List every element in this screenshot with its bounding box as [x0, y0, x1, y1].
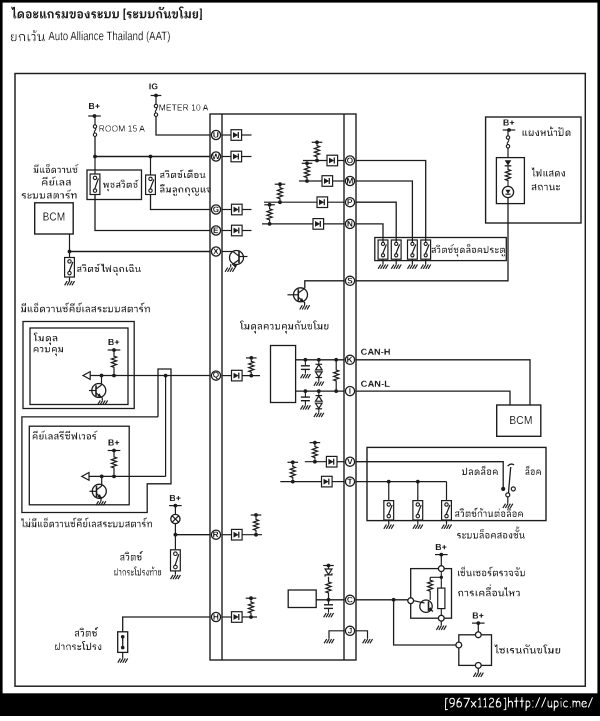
resistor to N line	[267, 207, 272, 226]
instrument panel box	[486, 117, 581, 223]
ground lock rod switch 1	[384, 520, 394, 529]
terminal V	[345, 457, 354, 466]
fuse ROOM 15 A	[93, 125, 96, 137]
transistor keyless receiver	[90, 476, 107, 505]
label BCM 2	[510, 416, 531, 424]
terminal R	[211, 530, 220, 539]
resistor Q	[249, 360, 254, 378]
terminal I	[345, 387, 354, 396]
diode N	[262, 219, 344, 230]
trunk lamp	[171, 514, 180, 523]
label push switch	[103, 180, 139, 192]
wire B+ to panel fuse	[507, 130, 509, 136]
keyless receiver outer box (with chimney)	[22, 369, 171, 513]
capacitor K	[301, 360, 311, 379]
pullup stub P	[275, 182, 286, 186]
resistor to O line	[314, 144, 319, 162]
label anti-theft control module	[240, 321, 328, 334]
pullup stub R	[251, 513, 262, 517]
sensor transistor	[414, 600, 435, 613]
wire drop sw2	[417, 482, 419, 501]
sensor internal node	[440, 572, 443, 580]
resistor K-I	[334, 360, 339, 391]
label instrument panel	[523, 127, 571, 137]
B+ supply (panel)	[503, 120, 516, 132]
sensor left terminal	[408, 598, 414, 604]
hood switch	[118, 632, 128, 653]
node lock rod sw2	[416, 480, 420, 484]
wire N to door switch 1	[356, 224, 383, 238]
wire J right ground	[356, 631, 373, 644]
terminal N	[345, 219, 354, 228]
double lock system box	[367, 447, 546, 520]
resistor C	[326, 577, 331, 602]
terminal E	[211, 226, 220, 235]
module left rail inner line	[221, 114, 223, 660]
wire BCM to X line	[69, 234, 71, 252]
terminal T	[345, 477, 354, 486]
label double lock system	[457, 527, 525, 539]
wire B+ to fuse	[94, 116, 96, 125]
siren left terminal	[456, 642, 462, 648]
wire Q branch riser	[165, 376, 167, 477]
B+ supply (room fuse)	[88, 103, 101, 118]
resistor H	[248, 600, 253, 619]
diode W	[222, 151, 252, 162]
pullup stub Q	[246, 356, 257, 360]
wire hood switch to H	[123, 617, 210, 632]
wire P to door switch 2	[356, 202, 396, 237]
resistor T	[290, 464, 295, 483]
title line 2	[11, 30, 170, 42]
label METER 10 A	[160, 105, 209, 111]
label CAN-H	[361, 349, 390, 355]
ground hazard switch	[65, 277, 75, 285]
wire B+ to sensor	[440, 555, 442, 566]
terminal C	[345, 595, 354, 604]
wire C internal	[316, 599, 344, 601]
label with advanced keyless	[21, 303, 150, 313]
wire W horizontal	[95, 156, 210, 158]
motion sensor box	[411, 569, 452, 619]
label lock rod switch	[455, 508, 523, 518]
pullup stub C	[323, 564, 334, 568]
keyless receiver inner box	[29, 426, 129, 505]
wire METER fuse to U	[156, 116, 210, 135]
diode O	[303, 155, 344, 166]
push switch box	[87, 170, 142, 200]
ground door lock switch 4	[421, 259, 431, 269]
label CAN-L	[361, 381, 390, 387]
push switch	[90, 174, 100, 195]
wire J left ground	[324, 631, 344, 644]
anti-theft module outline	[210, 114, 356, 660]
BCM box (keyless)	[35, 203, 73, 234]
wire C branch to siren	[394, 600, 456, 645]
label advanced keyless 2	[42, 177, 70, 186]
pullup stub M	[302, 161, 313, 165]
door lock switch pack box	[375, 238, 507, 261]
door lock switch 3	[408, 238, 418, 260]
capacitor I	[301, 391, 311, 410]
bottom black bar	[0, 693, 600, 716]
sensor bottom terminal	[438, 615, 444, 621]
lock rod switch 1	[384, 501, 394, 520]
key reminder switch	[146, 175, 156, 195]
transistor S	[288, 281, 345, 310]
node Q branch	[164, 374, 168, 378]
ground door lock switch 2	[391, 259, 401, 269]
door lock switch 2	[391, 238, 401, 260]
signal arrow (control module)	[83, 372, 90, 380]
label control module 1	[34, 333, 58, 346]
zener C	[325, 566, 332, 577]
label control module 2	[34, 347, 63, 356]
control module inner box	[30, 328, 128, 405]
wire I internal	[296, 390, 344, 392]
wire R horizontal	[175, 534, 210, 536]
wire CAN-L to BCM	[356, 391, 510, 405]
pullup stub O	[312, 140, 323, 144]
node K res	[334, 358, 338, 362]
wire K internal	[296, 359, 344, 361]
label key reminder 2	[160, 184, 211, 196]
terminal U	[211, 130, 220, 139]
terminal K	[345, 355, 354, 364]
wire CAN-H to BCM	[356, 360, 530, 405]
label unlock	[462, 466, 498, 475]
wire to key-reminder switch	[150, 157, 152, 176]
LED diode (panel)	[505, 160, 512, 168]
wire fuse to W-node	[94, 136, 96, 156]
label ROOM 15 A	[100, 126, 145, 132]
wire push switch to E	[95, 195, 210, 231]
wire to push switch	[94, 157, 96, 175]
label door lock switch pack	[432, 244, 505, 257]
terminal X	[211, 247, 220, 256]
siren box	[459, 635, 492, 666]
wire fuse to indicator box	[507, 148, 509, 158]
B+ supply (siren)	[472, 613, 485, 625]
label status lamp 1	[532, 168, 565, 177]
lock lever contact unlock	[501, 487, 505, 491]
diode M	[299, 176, 344, 187]
node receiver transistor	[100, 475, 104, 479]
wire to trunk switch	[174, 535, 176, 550]
siren bottom terminal	[475, 663, 481, 669]
wire receiver to riser	[89, 475, 166, 477]
lock lever contact lock	[511, 487, 515, 491]
door lock switch 4	[421, 238, 431, 260]
label trunk switch 1	[120, 551, 143, 561]
sensor top terminal	[438, 566, 444, 572]
status indicator lamp	[502, 182, 513, 198]
pullup stub V	[310, 441, 321, 445]
ground lock rod switch 3	[442, 520, 452, 529]
label siren	[494, 645, 560, 654]
lock lever common contact	[506, 493, 510, 497]
wire B+ to trunk lamp	[174, 506, 176, 515]
label without advanced keyless	[21, 518, 152, 528]
door lock switch 1	[378, 238, 388, 260]
B+ supply (motion sensor)	[435, 544, 448, 556]
title line 1	[11, 7, 202, 21]
diode Q	[222, 370, 260, 381]
terminal J	[345, 626, 354, 635]
resistor keyless receiver	[111, 451, 116, 475]
BCM box 2	[497, 405, 541, 436]
label hood switch 2	[55, 641, 101, 650]
label keyless receiver	[33, 431, 98, 440]
control module outer box	[23, 322, 134, 409]
diode E	[222, 225, 252, 236]
node Q transistor	[100, 374, 104, 378]
watermark url text	[445, 697, 593, 711]
CAN transceiver box	[271, 346, 296, 403]
terminal G	[211, 205, 220, 214]
transistor control module	[89, 376, 108, 405]
wire lamp to R line	[174, 524, 176, 535]
wire to hazard switch	[69, 252, 71, 258]
node lock rod sw1	[387, 480, 391, 484]
pullup stub N	[264, 203, 275, 207]
wire O to door switch 4	[356, 161, 426, 238]
node C branch	[392, 598, 396, 602]
wire M to door switch 3	[356, 181, 412, 238]
label hazard switch	[77, 264, 141, 276]
B+ supply (trunk lamp)	[169, 495, 182, 508]
pullup stub H	[246, 596, 257, 600]
node I res	[334, 389, 338, 393]
resistor to P line	[277, 186, 282, 204]
transistor X (behind terminal X)	[222, 251, 248, 272]
node key-switch branch	[149, 155, 153, 159]
label motion sensor 1	[458, 567, 525, 577]
diode G	[222, 204, 252, 215]
terminal Q	[211, 371, 220, 380]
node receiver out	[112, 475, 116, 479]
lock rod switch 2	[413, 501, 423, 520]
label lock	[525, 466, 540, 475]
ground hood switch	[118, 652, 128, 662]
label BCM 1	[44, 213, 65, 221]
diode H	[222, 612, 257, 623]
wire C to motion sensor	[356, 599, 408, 601]
node X line	[68, 250, 72, 254]
diode T	[280, 476, 344, 487]
wire X horizontal	[70, 251, 211, 253]
resistor control module	[111, 350, 116, 374]
module right rail inner line	[343, 114, 345, 660]
node R line	[174, 533, 178, 537]
ground lock rod switch 2	[413, 520, 423, 529]
ground door lock switch 1	[378, 259, 388, 269]
terminal P	[345, 198, 354, 207]
capacitor C	[324, 602, 334, 618]
terminal W	[211, 152, 220, 161]
B+ supply (control module)	[108, 339, 121, 352]
trunk lid switch	[171, 550, 181, 571]
ground door lock switch 3	[408, 259, 418, 269]
resistor to M line	[304, 165, 309, 183]
terminal S	[345, 276, 354, 285]
ground motion sensor	[436, 621, 446, 630]
sensor element	[438, 577, 445, 615]
label motion sensor 2	[458, 585, 520, 597]
resistor R	[253, 517, 258, 537]
node K zener	[317, 358, 321, 362]
lock rod switch 3	[442, 501, 452, 520]
fuse METER 10 A	[154, 104, 157, 116]
junction box C	[288, 590, 316, 608]
resistor (panel)	[505, 168, 510, 182]
wire lamp to S terminal	[356, 198, 508, 281]
B+ supply (keyless receiver)	[108, 440, 121, 453]
diode R	[222, 529, 262, 540]
sensor resistor	[428, 577, 442, 600]
siren top terminal	[475, 632, 481, 638]
node Q internal	[112, 374, 116, 378]
wire T to lock rod switches	[356, 481, 447, 483]
ground lock lever	[503, 497, 513, 508]
diode U	[222, 130, 252, 141]
signal arrow (keyless receiver)	[82, 473, 89, 481]
node W-line left	[93, 155, 97, 159]
diode P	[264, 197, 344, 208]
ground siren	[473, 668, 483, 677]
label hood switch 1	[75, 627, 98, 637]
wire V to lock lever	[356, 462, 503, 487]
label advanced keyless 3	[22, 190, 77, 199]
node I zener	[317, 389, 321, 393]
fuse panel	[506, 136, 509, 148]
diode V	[305, 456, 344, 467]
pullup stub T	[288, 460, 299, 464]
zener pair K	[314, 360, 324, 386]
IG supply	[149, 84, 161, 98]
wire B+ to siren	[477, 623, 479, 632]
terminal O	[345, 156, 354, 165]
label key reminder 1	[160, 170, 205, 179]
hazard warning switch	[65, 258, 75, 278]
status lamp box	[496, 158, 524, 204]
resistor V	[312, 445, 317, 464]
node K cap	[304, 358, 308, 362]
label status lamp 2	[532, 184, 560, 190]
wire IG to fuse	[155, 97, 157, 104]
wire drop sw3	[446, 482, 448, 501]
zener pair I	[314, 391, 324, 417]
terminal H	[211, 612, 220, 621]
ground trunk switch	[171, 571, 181, 579]
wire Q line	[90, 375, 210, 377]
lock lever arm	[508, 464, 514, 492]
wire key switch to G	[151, 195, 211, 210]
wire drop sw1	[388, 482, 390, 501]
node I cap	[304, 389, 308, 393]
label advanced keyless 1	[34, 164, 79, 173]
terminal M	[345, 176, 354, 185]
label trunk switch 2	[114, 567, 161, 576]
